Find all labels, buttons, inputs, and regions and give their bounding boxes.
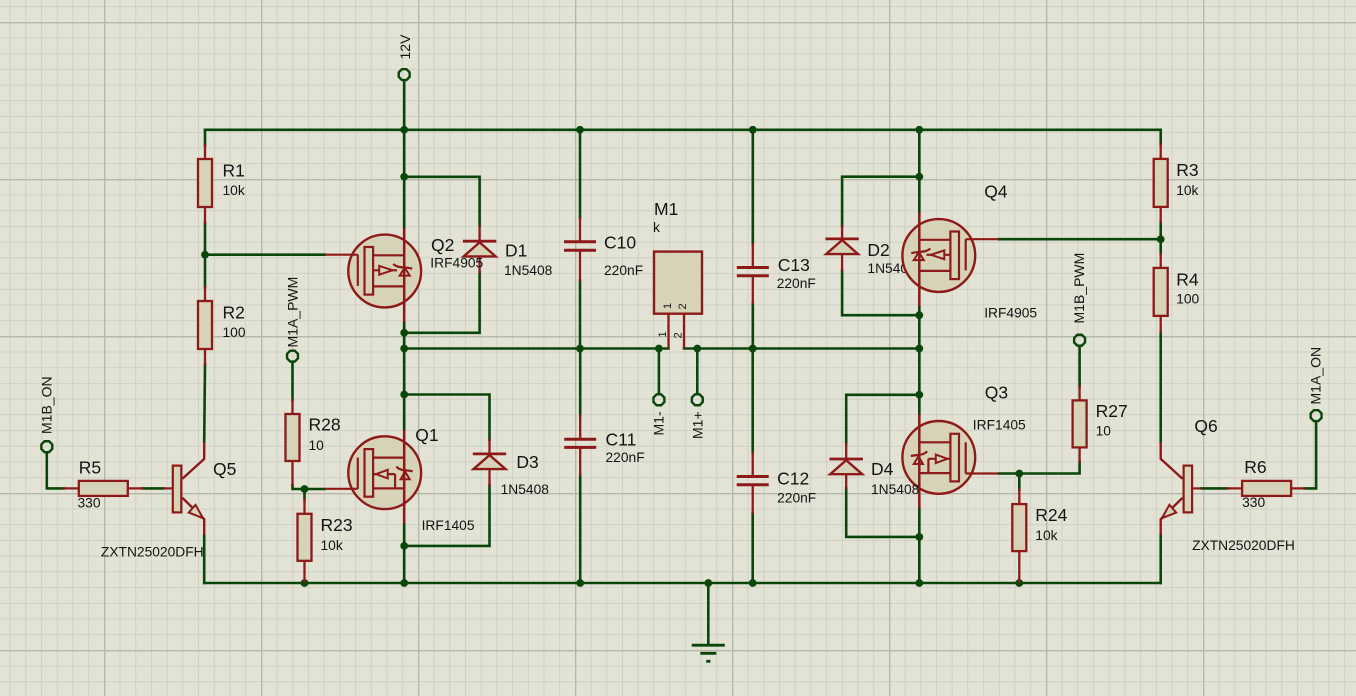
wire to D2 cathode <box>842 177 919 227</box>
diode D1 symbol <box>463 241 496 256</box>
svg-text:R1: R1 <box>223 161 245 181</box>
svg-text:M1A_PWM: M1A_PWM <box>284 277 300 348</box>
node Q4 on top bus <box>915 126 923 134</box>
svg-text:M1+: M1+ <box>690 411 706 439</box>
transistor Q4 (IRF4905 P-MOSFET, mirrored) <box>902 213 998 307</box>
wire C12 top <box>751 349 754 453</box>
resistor R1 pin 2 <box>204 207 206 223</box>
wire R27 bottom jog <box>1019 462 1079 474</box>
resistor R23 body <box>298 514 312 561</box>
capacitor C10 plates <box>564 242 596 251</box>
terminal M1A_PWM <box>287 351 298 362</box>
svg-text:Q4: Q4 <box>984 182 1008 202</box>
svg-text:M1B_PWM: M1B_PWM <box>1071 253 1087 324</box>
diode D2 symbol <box>825 239 858 254</box>
wire C10 top <box>579 130 582 218</box>
wire R1 top <box>204 130 207 146</box>
capacitor C12 pin 1 <box>752 453 754 476</box>
node Q4 source on mid bus <box>915 345 923 353</box>
motor connector M1 body <box>654 252 702 314</box>
node R28-R23 / Q1 gate <box>301 485 309 493</box>
node D4 cathode tap <box>915 391 923 399</box>
wire Q2 drain upper <box>403 130 406 228</box>
resistor R24 body <box>1012 504 1026 551</box>
wire R28 bottom jog <box>293 485 305 489</box>
node R1-R2 / Q2 gate <box>201 251 209 259</box>
svg-text:220nF: 220nF <box>606 450 645 465</box>
wire Q2-Q1 link <box>403 322 406 430</box>
node C10 on top bus <box>576 126 584 134</box>
svg-text:Q5: Q5 <box>213 459 236 479</box>
resistor R27 body <box>1073 400 1087 447</box>
capacitor C11 pin 1 <box>579 416 581 438</box>
wire Q4 source upper <box>918 130 921 213</box>
transistor Q2 (IRF4905 P-MOSFET) <box>325 228 421 322</box>
resistor R23 pin 1 <box>303 499 305 514</box>
wire M1- terminal drop <box>658 349 661 395</box>
transistor Q5 (ZXTN25020DFH NPN) <box>163 442 204 535</box>
resistor R24 pin 2 <box>1018 551 1020 582</box>
svg-text:D1: D1 <box>505 240 527 260</box>
capacitor C11 pin 2 <box>579 449 581 475</box>
diode D4 pin 2 <box>845 474 847 488</box>
wire Q3 gate net <box>999 472 1020 475</box>
wire M1B_ON to R5 <box>47 452 64 488</box>
node D1 anode tap <box>400 329 408 337</box>
svg-text:R23: R23 <box>321 515 353 535</box>
resistor R6 pin 2 <box>1290 487 1305 489</box>
svg-text:C12: C12 <box>777 469 809 489</box>
svg-text:2: 2 <box>677 303 689 309</box>
node M1- tap on mid bus <box>655 345 663 353</box>
svg-text:330: 330 <box>1242 495 1265 510</box>
node D1 cathode tap <box>400 173 408 181</box>
diode D4 symbol <box>830 459 863 474</box>
resistor R3 body <box>1154 159 1168 207</box>
svg-text:10: 10 <box>309 438 325 453</box>
diode D3 symbol <box>473 454 506 469</box>
capacitor C13 pin 1 <box>752 244 754 266</box>
diode D3 pin 1 <box>488 440 490 453</box>
svg-text:R28: R28 <box>309 415 341 435</box>
svg-text:100: 100 <box>1176 292 1199 307</box>
resistor R27 pin 2 <box>1078 447 1080 461</box>
svg-text:10k: 10k <box>1035 528 1057 543</box>
wire M1A_PWM to R28 <box>291 362 294 401</box>
motor M1 pin 2 stub <box>683 314 685 348</box>
wire from D3 anode <box>404 485 489 546</box>
capacitor C12 plates <box>737 477 769 485</box>
node R24 on bottom bus <box>1015 579 1023 587</box>
svg-text:1: 1 <box>657 331 669 337</box>
node C13-C12 on mid bus <box>749 345 757 353</box>
wire to D3 cathode <box>404 395 489 441</box>
resistor R28 body <box>286 414 300 461</box>
svg-text:12V: 12V <box>397 34 413 60</box>
wire R3 top <box>1159 130 1162 145</box>
svg-text:10k: 10k <box>223 183 245 198</box>
transistor Q3 (IRF1405 N-MOSFET, mirrored) <box>902 414 998 508</box>
wire ground stem <box>707 583 710 645</box>
capacitor C10 pin 2 <box>579 252 581 281</box>
wire R2 to Q5 collector <box>203 365 206 442</box>
svg-text:Q3: Q3 <box>985 383 1008 403</box>
capacitor C13 pin 2 <box>752 277 754 303</box>
wire R5 to Q5 base <box>143 487 164 490</box>
node D2 anode tap <box>915 311 923 319</box>
wire top supply bus <box>205 129 1161 132</box>
node D4 anode tap <box>915 533 923 541</box>
wire 12V stem <box>403 80 406 129</box>
svg-text:10k: 10k <box>1176 183 1198 198</box>
terminal M1A_ON <box>1311 410 1322 421</box>
wire R6 to Q6 base <box>1202 487 1228 490</box>
diode D1 pin 1 <box>478 226 480 240</box>
svg-text:Q2: Q2 <box>431 235 454 255</box>
svg-text:k: k <box>653 220 660 235</box>
svg-text:D3: D3 <box>516 452 538 472</box>
node D3 cathode tap <box>400 391 408 399</box>
wire Q1 source to bus <box>403 524 406 583</box>
wire Q4-Q3 link <box>918 307 921 415</box>
node D3 anode tap <box>400 542 408 550</box>
svg-text:Q6: Q6 <box>1194 416 1217 436</box>
motor M1 pin 1 stub <box>667 314 669 348</box>
capacitor C13 plates <box>737 268 769 276</box>
node 12V / Q2 drain on top bus <box>400 126 408 134</box>
transistor Q1 (IRF1405 N-MOSFET) <box>325 430 421 524</box>
wire Q5 emitter to bus <box>203 535 206 583</box>
resistor R1 body <box>198 159 212 207</box>
resistor R2 pin 1 <box>204 287 206 301</box>
ground symbol <box>692 645 725 661</box>
node C10-C11 on mid bus <box>576 345 584 353</box>
wire to D1 cathode <box>404 177 479 226</box>
svg-text:ZXTN25020DFH: ZXTN25020DFH <box>101 545 204 560</box>
node C13 on top bus <box>749 126 757 134</box>
wire to D4 cathode <box>846 395 919 444</box>
svg-text:10: 10 <box>1096 424 1112 439</box>
wire bottom ground bus <box>204 582 1160 585</box>
wire Q3 source to bus <box>918 508 921 583</box>
svg-text:1: 1 <box>662 303 674 309</box>
node R3-R4 / Q4 gate <box>1157 235 1165 243</box>
svg-text:330: 330 <box>78 496 101 511</box>
terminal M1B_ON <box>41 441 52 452</box>
diode D1 pin 2 <box>478 256 480 272</box>
svg-text:ZXTN25020DFH: ZXTN25020DFH <box>1192 538 1295 553</box>
node C12 on bottom bus <box>749 579 757 587</box>
resistor R28 pin 1 <box>291 400 293 414</box>
resistor R24 pin 1 <box>1018 490 1020 504</box>
svg-text:M1-: M1- <box>651 411 667 435</box>
terminal 12V <box>399 69 410 80</box>
svg-text:220nF: 220nF <box>604 263 643 278</box>
node M1+ tap on mid bus <box>693 345 701 353</box>
wire M1B_PWM to R27 <box>1078 346 1081 387</box>
svg-text:IRF1405: IRF1405 <box>973 418 1026 433</box>
wire M1+ terminal drop <box>696 349 699 395</box>
svg-text:10k: 10k <box>321 538 343 553</box>
svg-text:C10: C10 <box>604 233 636 253</box>
wire mid bus right (M1+ net) <box>684 347 919 350</box>
wire R3-R4 link <box>1159 222 1162 254</box>
resistor R2 body <box>198 301 212 349</box>
capacitor C12 pin 2 <box>752 486 754 513</box>
node Q1 source on bottom bus <box>400 579 408 587</box>
wire R24 top <box>1018 474 1021 490</box>
node R23 on bottom bus <box>301 579 309 587</box>
resistor R5 pin 1 <box>64 487 79 489</box>
resistor R5 body <box>79 481 128 496</box>
resistor R4 body <box>1154 268 1168 316</box>
svg-text:R2: R2 <box>223 302 245 322</box>
svg-text:M1B_ON: M1B_ON <box>39 376 55 434</box>
svg-text:1N5408: 1N5408 <box>501 482 550 497</box>
resistor R4 pin 2 <box>1160 316 1162 332</box>
node ground tap on bottom bus <box>704 579 712 587</box>
resistor R23 pin 2 <box>303 561 305 582</box>
resistor R5 pin 2 <box>128 487 143 489</box>
node Q3 source on bottom bus <box>915 579 923 587</box>
resistor R3 pin 1 <box>1160 145 1162 159</box>
node R27-R24 / Q3 gate <box>1015 470 1023 478</box>
node Q2 drain on mid bus <box>400 345 408 353</box>
svg-text:C11: C11 <box>606 430 637 450</box>
wire mid bus left (M1- net) <box>404 347 668 350</box>
svg-text:R5: R5 <box>79 458 101 478</box>
wire Q6 emitter to bus <box>1159 535 1162 583</box>
svg-text:1N5408: 1N5408 <box>871 482 920 497</box>
wire C10 bottom <box>579 281 582 349</box>
wire from D4 anode <box>846 488 919 537</box>
diode D2 pin 2 <box>841 254 843 270</box>
svg-text:IRF1405: IRF1405 <box>422 518 475 533</box>
svg-text:M1: M1 <box>654 199 678 219</box>
node D2 cathode tap <box>915 173 923 181</box>
resistor R1 pins <box>204 146 206 160</box>
wire R1-R2 link <box>204 223 207 288</box>
svg-text:D4: D4 <box>871 459 894 479</box>
svg-text:R3: R3 <box>1176 160 1198 180</box>
resistor R6 pin 1 <box>1227 487 1242 489</box>
svg-text:R6: R6 <box>1244 457 1266 477</box>
svg-text:IRF4905: IRF4905 <box>430 256 483 271</box>
wire M1A_ON to R6 <box>1305 421 1317 488</box>
wire C11 bottom <box>579 475 582 584</box>
svg-text:1N5408: 1N5408 <box>504 263 553 278</box>
wire C12 bottom <box>751 513 754 583</box>
svg-text:220nF: 220nF <box>777 276 816 291</box>
wire R23 top <box>303 489 306 499</box>
svg-text:R24: R24 <box>1035 505 1067 525</box>
svg-text:C13: C13 <box>778 255 810 275</box>
wire from D1 anode <box>404 272 479 333</box>
svg-text:220nF: 220nF <box>777 491 816 506</box>
wire C13 bottom <box>751 303 754 349</box>
svg-text:D2: D2 <box>867 240 889 260</box>
terminal M1+ <box>692 394 703 405</box>
wire Q4 gate net <box>999 238 1161 241</box>
wire R4 to Q6 collector <box>1159 332 1162 442</box>
capacitor C10 pin 1 <box>579 218 581 240</box>
resistor R6 body <box>1242 481 1291 496</box>
terminal M1B_PWM <box>1074 335 1085 346</box>
node C11 on bottom bus <box>576 579 584 587</box>
svg-text:2: 2 <box>672 332 684 338</box>
wire Q2 gate net <box>205 253 325 256</box>
capacitor C11 plates <box>564 439 596 447</box>
svg-text:IRF4905: IRF4905 <box>984 305 1037 320</box>
diode D3 pin 2 <box>488 469 490 485</box>
diode D2 pin 1 <box>841 226 843 238</box>
svg-text:M1A_ON: M1A_ON <box>1308 347 1324 405</box>
wire from D2 anode <box>842 270 919 315</box>
resistor R4 pin 1 <box>1160 254 1162 268</box>
resistor R28 pin 2 <box>291 461 293 485</box>
resistor R2 pin 2 <box>204 349 206 365</box>
svg-text:100: 100 <box>223 325 246 340</box>
resistor R27 pin 1 <box>1078 386 1080 400</box>
svg-text:Q1: Q1 <box>415 425 438 445</box>
svg-text:R4: R4 <box>1176 270 1199 290</box>
resistor R3 pin 2 <box>1160 207 1162 222</box>
terminal M1- <box>653 394 664 405</box>
transistor Q6 (ZXTN25020DFH NPN, mirrored) <box>1161 442 1202 535</box>
svg-text:R27: R27 <box>1096 401 1128 421</box>
wire Q1 gate net <box>305 488 325 491</box>
wire C13 top <box>751 130 754 244</box>
diode D4 pin 1 <box>845 444 847 458</box>
wire C11 top <box>579 349 582 416</box>
